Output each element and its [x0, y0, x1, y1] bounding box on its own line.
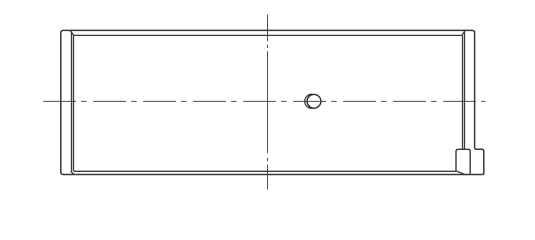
- bottom-left corner chamfer diagonal: [71, 172, 75, 175]
- oil hole chamfer crescent arc: [305, 94, 313, 108]
- bearing shell outer outline with locating lug step at bottom right: [61, 30, 484, 174]
- top inner chamfer line: [74, 34, 462, 36]
- bottom inner chamfer line: [74, 170, 456, 172]
- horizontal centerline: [43, 100, 485, 102]
- right parting-face line inner: [462, 35, 464, 149]
- oil hole circle: [307, 94, 321, 108]
- left parting-face line outer: [71, 32, 73, 172]
- locating lug inner box: [456, 149, 470, 174]
- top-right corner chamfer diagonal: [462, 31, 465, 35]
- left parting-face line inner: [73, 35, 75, 171]
- vertical centerline: [267, 15, 269, 190]
- lug chamfer diagonal: [456, 171, 465, 175]
- right parting-face line outer: [464, 32, 466, 150]
- top-left corner chamfer diagonal: [70, 31, 74, 35]
